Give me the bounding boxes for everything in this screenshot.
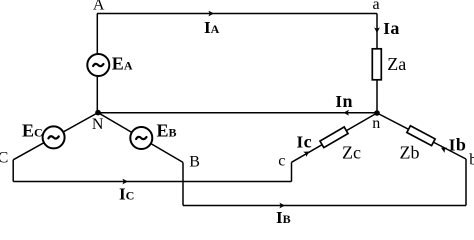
source EC xyxy=(43,126,65,148)
arrow Ic diagonal xyxy=(303,149,311,157)
wire N to C diagonal xyxy=(13,113,98,160)
impedance Zb xyxy=(407,126,435,146)
arrow Ia down xyxy=(374,27,380,33)
svg-text:A: A xyxy=(93,0,105,14)
wire c up xyxy=(291,162,293,181)
svg-text:C: C xyxy=(0,150,8,167)
source EA xyxy=(87,54,109,76)
wire A-a top xyxy=(97,13,377,15)
impedance Za xyxy=(372,49,381,80)
wire B-b bottom xyxy=(183,205,466,207)
svg-text:In: In xyxy=(335,91,352,111)
wire N to B diagonal xyxy=(98,113,183,163)
svg-text:a: a xyxy=(372,0,379,13)
wire A down to N xyxy=(96,14,98,113)
arrow Ib diagonal xyxy=(440,145,448,153)
source EB xyxy=(130,127,152,149)
arrow IC on bottom wire xyxy=(122,179,128,185)
svg-text:n: n xyxy=(372,115,380,132)
svg-text:Ic: Ic xyxy=(297,131,312,151)
node N junction dot xyxy=(95,110,101,116)
svg-text:Ia: Ia xyxy=(383,18,399,38)
svg-text:c: c xyxy=(278,152,285,169)
impedance Zc xyxy=(320,127,348,148)
arrow IA on top wire xyxy=(208,11,214,17)
wire b up xyxy=(465,159,467,206)
svg-text:Za: Za xyxy=(387,54,406,74)
svg-text:Zc: Zc xyxy=(342,142,361,162)
wire B down xyxy=(182,162,184,205)
wire b to n diagonal xyxy=(377,113,466,159)
wire c to n diagonal xyxy=(292,113,378,162)
wire a down to n xyxy=(376,14,378,114)
wire C-c bottom xyxy=(13,181,291,183)
node n junction dot xyxy=(374,110,380,116)
svg-text:b: b xyxy=(469,152,474,169)
arrow IB on bottom wire xyxy=(279,203,285,209)
svg-text:B: B xyxy=(189,154,200,171)
wire N-n middle xyxy=(98,112,377,114)
svg-text:N: N xyxy=(92,116,104,133)
svg-text:Ib: Ib xyxy=(449,135,466,155)
svg-text:Zb: Zb xyxy=(400,142,420,162)
arrow In left xyxy=(343,110,349,116)
wire C corner down xyxy=(12,160,14,182)
